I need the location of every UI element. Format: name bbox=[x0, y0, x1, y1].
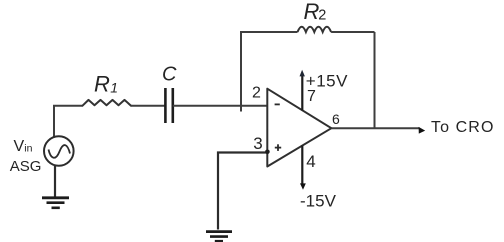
svg-text:C: C bbox=[162, 63, 177, 85]
wire bbox=[173, 105, 267, 107]
non-inverting input marker + bbox=[275, 144, 281, 151]
wire bbox=[331, 127, 419, 129]
node (pin 3 junction) bbox=[265, 150, 270, 155]
wire bbox=[331, 31, 374, 33]
wire bbox=[374, 32, 376, 128]
svg-text:2: 2 bbox=[318, 8, 326, 24]
svg-text:7: 7 bbox=[307, 88, 316, 105]
ground bbox=[42, 198, 69, 208]
op-amp bbox=[267, 89, 331, 167]
svg-text:R: R bbox=[304, 0, 320, 24]
svg-text:V: V bbox=[14, 138, 25, 155]
svg-text:4: 4 bbox=[306, 152, 315, 171]
wire bbox=[131, 105, 165, 107]
svg-text:3: 3 bbox=[253, 134, 262, 153]
svg-text:R: R bbox=[94, 72, 110, 97]
svg-text:ASG: ASG bbox=[10, 158, 42, 175]
ground bbox=[206, 232, 232, 242]
ac source ASG bbox=[44, 136, 74, 166]
svg-text:6: 6 bbox=[332, 111, 340, 127]
resistor R1 bbox=[83, 100, 132, 106]
capacitor C bbox=[165, 88, 172, 123]
svg-text:2: 2 bbox=[252, 84, 261, 101]
arrow to CRO bbox=[419, 127, 426, 134]
wire bbox=[218, 153, 267, 230]
arrow -15V bbox=[300, 183, 306, 189]
arrow +15V bbox=[300, 70, 305, 77]
wire bbox=[54, 106, 83, 137]
pin 4 supply lead bbox=[301, 146, 303, 185]
wire bbox=[54, 166, 56, 198]
pin 7 supply lead bbox=[301, 76, 303, 111]
wire bbox=[241, 32, 298, 112]
resistor R2 bbox=[298, 27, 332, 32]
svg-text:1: 1 bbox=[110, 80, 118, 96]
svg-text:in: in bbox=[24, 142, 32, 154]
svg-text:-15V: -15V bbox=[300, 192, 337, 211]
svg-text:+15V: +15V bbox=[306, 71, 348, 90]
inverting input marker - bbox=[275, 103, 280, 105]
svg-text:To CRO: To CRO bbox=[431, 119, 495, 136]
